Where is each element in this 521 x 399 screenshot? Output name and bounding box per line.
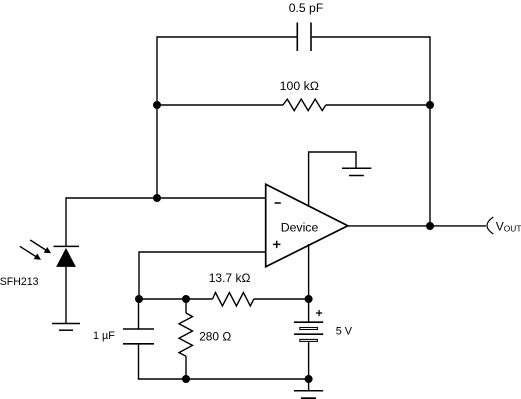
resistor R3 280 Ohm [179, 313, 193, 356]
wire 280 bottom tap [185, 356, 187, 379]
svg-text:1 µF: 1 µF [93, 330, 115, 342]
op-amp U1 Device [266, 184, 348, 266]
wire 1uF top tap [138, 299, 140, 329]
resistor R2 13.7 kOhm [213, 293, 254, 307]
wire mid branch left [139, 298, 213, 300]
ground op-amp supply [342, 168, 371, 175]
light arrow 2 [20, 246, 41, 259]
ground photodiode [52, 324, 80, 331]
wire battery top tap [308, 299, 310, 322]
wire positive supply pin [309, 152, 356, 207]
junction dot battery top [305, 295, 313, 303]
label battery plus sign [316, 310, 322, 316]
junction dot feedback left [153, 101, 161, 109]
wire top feedback branch left [157, 36, 297, 38]
svg-text:100 kΩ: 100 kΩ [280, 79, 319, 93]
svg-text:280 Ω: 280 Ω [199, 329, 231, 343]
svg-text:0.5 pF: 0.5 pF [289, 1, 324, 15]
wire top feedback branch right [312, 36, 430, 38]
wire ground tap [308, 379, 310, 391]
op-amp plus symbol [273, 241, 280, 248]
node VOUT paren [487, 217, 493, 234]
capacitor 0.5 pF [297, 23, 311, 52]
wire non-inverting input [139, 252, 266, 299]
ground supply [294, 391, 323, 399]
junction dot inverting input [153, 194, 161, 202]
wire 100k branch left [157, 104, 283, 106]
battery BT1 5V [294, 322, 323, 341]
wire right rail [429, 36, 431, 226]
light arrow 1 [30, 240, 51, 253]
wire negative supply pin [308, 244, 310, 299]
wire inverting input [66, 197, 266, 199]
junction dot bottom battery [305, 375, 313, 383]
wire 280 top tap [185, 299, 187, 313]
wire bottom rail [139, 378, 309, 380]
svg-text:V: V [496, 220, 504, 234]
photodiode D1 SFH213 [54, 246, 80, 267]
op-amp minus symbol [275, 202, 281, 204]
svg-text:OUT: OUT [504, 224, 521, 234]
junction dot output [426, 222, 434, 230]
wire 100k branch right [326, 104, 430, 106]
wire op-amp output [348, 225, 486, 227]
junction dot node A 280 top [182, 295, 190, 303]
wire battery bottom tap [308, 342, 310, 379]
junction dot node A left [135, 295, 143, 303]
wire left rail [156, 36, 158, 198]
wire 1uF bottom tap [138, 344, 140, 380]
junction dot feedback right [426, 101, 434, 109]
svg-text:SFH213: SFH213 [0, 276, 39, 288]
resistor R_F 100 kOhm [283, 99, 326, 111]
wire photodiode anode [65, 267, 67, 324]
svg-text:13.7 kΩ: 13.7 kΩ [209, 271, 251, 285]
wire mid branch right [254, 298, 309, 300]
svg-text:5 V: 5 V [336, 326, 353, 338]
svg-text:Device: Device [281, 220, 319, 234]
junction dot bottom 280 [182, 375, 190, 383]
wire photodiode cathode [65, 197, 67, 246]
capacitor C2 1 uF [123, 329, 154, 344]
